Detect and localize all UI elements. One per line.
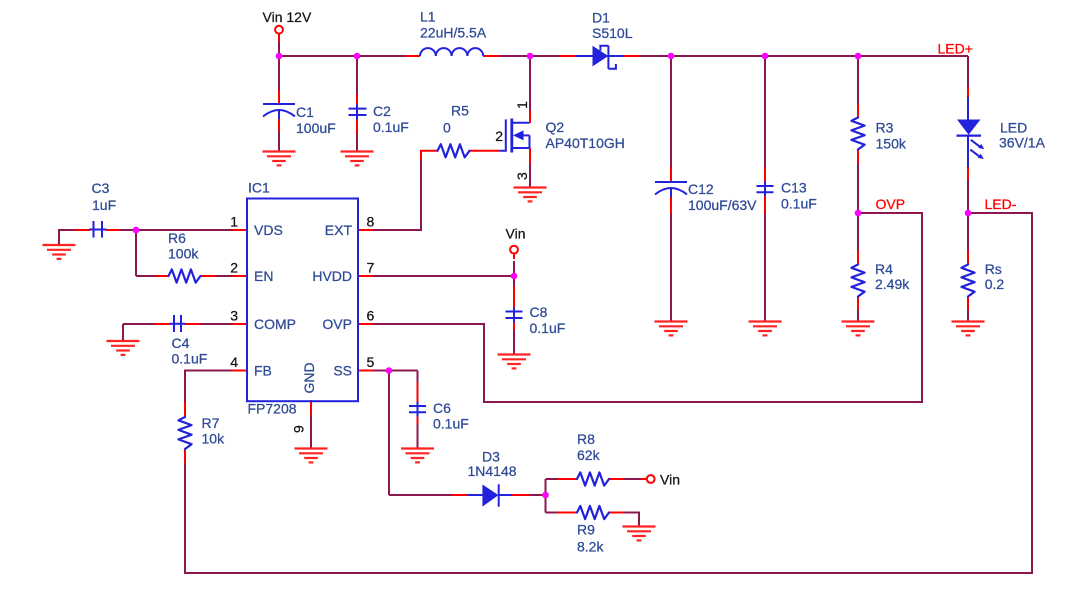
svg-text:S510L: S510L bbox=[592, 25, 633, 41]
svg-text:1: 1 bbox=[514, 101, 530, 109]
ground C4 bbox=[107, 341, 140, 355]
pin stubs Rs bbox=[967, 251, 969, 311]
svg-text:C8: C8 bbox=[530, 304, 548, 320]
wire C3 to VDS bbox=[119, 229, 233, 231]
resistor R3 bbox=[851, 118, 864, 150]
wire OVP net bbox=[373, 213, 922, 402]
ground C8 bbox=[498, 355, 531, 369]
pin stubs R5 and Q2 gate bbox=[421, 151, 500, 160]
svg-text:Rs: Rs bbox=[985, 261, 1002, 277]
svg-text:EN: EN bbox=[254, 268, 273, 284]
wire R3 column bbox=[857, 56, 859, 213]
svg-text:100k: 100k bbox=[168, 246, 199, 262]
pin stubs IC1 right bbox=[358, 230, 373, 371]
svg-text:C4: C4 bbox=[172, 335, 190, 351]
svg-text:R7: R7 bbox=[202, 415, 220, 431]
pin stubs C8 bbox=[513, 286, 515, 330]
svg-text:IC1: IC1 bbox=[248, 180, 270, 196]
wire Q2 drain bbox=[529, 56, 531, 111]
wire C1 column bbox=[278, 56, 280, 152]
ground C13 bbox=[749, 322, 782, 336]
capacitor C4 bbox=[170, 315, 185, 332]
wire EN branch via R6 bbox=[136, 230, 233, 276]
resistor R5 bbox=[438, 144, 470, 157]
wire HVDD to Vin node bbox=[373, 275, 514, 277]
svg-text:22uH/5.5A: 22uH/5.5A bbox=[420, 25, 487, 41]
svg-text:0: 0 bbox=[443, 120, 451, 136]
svg-text:0.1uF: 0.1uF bbox=[530, 320, 566, 336]
node LED- junction bbox=[965, 210, 972, 217]
ground IC1 pin 9 bbox=[295, 449, 328, 463]
pin stubs C1 bbox=[278, 90, 280, 131]
svg-text:L1: L1 bbox=[420, 9, 436, 25]
svg-text:OVP: OVP bbox=[322, 316, 352, 332]
wire R8 row bbox=[546, 478, 641, 480]
node junction VDS/EN bbox=[133, 227, 140, 234]
node junction C13 bbox=[762, 53, 769, 60]
svg-text:Vin: Vin bbox=[660, 472, 680, 488]
svg-text:Q2: Q2 bbox=[546, 119, 565, 135]
pin stubs C4 bbox=[155, 323, 201, 325]
svg-text:R5: R5 bbox=[451, 103, 469, 119]
diode D1 S510L (schottky) bbox=[576, 46, 623, 69]
pin stub Vin terminal 2 bbox=[513, 254, 515, 260]
pin stubs R9 bbox=[558, 512, 624, 514]
svg-text:LED-: LED- bbox=[985, 196, 1017, 212]
capacitor C12 (polarized) bbox=[655, 182, 687, 197]
transistor Q2 AP40T10GH (N-MOSFET) bbox=[500, 119, 530, 153]
resistor R4 bbox=[851, 265, 864, 297]
svg-text:100uF: 100uF bbox=[296, 120, 336, 136]
svg-text:1: 1 bbox=[230, 214, 238, 230]
pin stubs C3 bbox=[75, 229, 120, 231]
pin stubs D3 bbox=[452, 494, 530, 496]
pin stubs R4 bbox=[857, 251, 859, 311]
wire Rs column bbox=[967, 213, 969, 322]
capacitor C2 bbox=[349, 104, 367, 119]
svg-text:4: 4 bbox=[230, 354, 238, 370]
svg-text:8.2k: 8.2k bbox=[577, 539, 604, 555]
svg-text:9: 9 bbox=[291, 425, 307, 433]
svg-text:OVP: OVP bbox=[876, 196, 906, 212]
svg-text:FB: FB bbox=[254, 363, 272, 379]
resistor Rs bbox=[961, 265, 974, 297]
wire Vin terminal stem bbox=[278, 41, 280, 57]
resistor R8 bbox=[577, 472, 609, 485]
node junction C12 bbox=[668, 53, 675, 60]
ground C6 bbox=[401, 449, 434, 463]
pin stubs C6 bbox=[417, 382, 419, 424]
capacitor C8 bbox=[506, 307, 523, 322]
svg-text:3: 3 bbox=[514, 172, 530, 180]
wire D3 cathode junction bbox=[529, 479, 546, 513]
ground C2 bbox=[341, 152, 374, 166]
capacitor C1 (polarized) bbox=[263, 104, 295, 119]
svg-text:2: 2 bbox=[230, 260, 238, 276]
svg-text:C3: C3 bbox=[92, 180, 110, 196]
ground C1 bbox=[263, 152, 296, 166]
ground Q2 source bbox=[514, 188, 547, 202]
pin stub Vin terminal bbox=[278, 34, 280, 43]
svg-text:SS: SS bbox=[333, 363, 352, 379]
svg-text:LED+: LED+ bbox=[938, 41, 973, 57]
svg-text:D1: D1 bbox=[592, 10, 610, 26]
svg-text:5: 5 bbox=[367, 354, 375, 370]
ground R4 bbox=[842, 322, 875, 336]
wire Q2 source to ground bbox=[529, 163, 531, 188]
svg-text:1uF: 1uF bbox=[92, 197, 116, 213]
pin stubs C12 bbox=[670, 167, 672, 214]
svg-text:AP40T10GH: AP40T10GH bbox=[546, 135, 625, 151]
svg-text:0.1uF: 0.1uF bbox=[172, 351, 208, 367]
capacitor C3 bbox=[89, 221, 107, 238]
ground C3 bbox=[43, 245, 76, 259]
node junction C2 bbox=[354, 53, 361, 60]
node junction R3 bbox=[855, 53, 862, 60]
resistor R6 bbox=[169, 269, 201, 282]
wire GND pin 9 to ground bbox=[310, 414, 312, 449]
svg-text:FP7208: FP7208 bbox=[248, 400, 297, 416]
svg-text:1N4148: 1N4148 bbox=[468, 463, 517, 479]
resistor R9 bbox=[577, 506, 609, 519]
pin stubs LED bbox=[967, 87, 969, 180]
wire C8 column bbox=[513, 276, 515, 355]
node junction D3/R8/R9 bbox=[542, 492, 549, 499]
svg-text:2: 2 bbox=[495, 128, 503, 144]
wire LED- net bottom loop bbox=[185, 213, 1032, 573]
diode D3 1N4148 bbox=[468, 484, 512, 506]
ground R9 bbox=[623, 527, 656, 541]
svg-text:7: 7 bbox=[367, 260, 375, 276]
inductor L1 bbox=[420, 48, 483, 56]
node OVP junction bbox=[855, 210, 862, 217]
svg-text:C1: C1 bbox=[296, 104, 314, 120]
wire COMP via C4 to ground bbox=[123, 324, 233, 341]
pin stubs R6 bbox=[156, 275, 215, 277]
wire SS down to D3 bbox=[389, 371, 453, 496]
wire C3 left to ground bbox=[59, 229, 75, 245]
svg-text:0.1uF: 0.1uF bbox=[781, 196, 817, 212]
resistor R7 bbox=[178, 417, 191, 449]
pin stubs Q2 drain source bbox=[529, 110, 531, 164]
svg-text:150k: 150k bbox=[876, 135, 907, 151]
svg-text:2.49k: 2.49k bbox=[875, 276, 910, 292]
svg-text:Vin 12V: Vin 12V bbox=[263, 9, 312, 25]
ground C12 bbox=[655, 322, 688, 336]
svg-text:EXT: EXT bbox=[325, 222, 353, 238]
svg-text:62k: 62k bbox=[577, 447, 601, 463]
svg-text:0.1uF: 0.1uF bbox=[433, 416, 469, 432]
svg-text:R6: R6 bbox=[168, 230, 186, 246]
svg-text:COMP: COMP bbox=[254, 316, 296, 332]
wire R9 row to ground bbox=[546, 513, 640, 528]
wire C13 column bbox=[764, 56, 766, 322]
wire C12 column bbox=[670, 56, 672, 322]
terminal Vin (HVDD) bbox=[510, 246, 518, 254]
capacitor C13 bbox=[757, 182, 774, 197]
svg-text:C13: C13 bbox=[781, 180, 807, 196]
op-amp / IC U1 FP7208 body bbox=[247, 199, 358, 402]
wire top rail Vin net bbox=[279, 55, 968, 57]
wire SS to C6 bbox=[373, 371, 418, 450]
wire R4 column bbox=[857, 213, 859, 322]
node junction Q2 drain bbox=[527, 53, 534, 60]
LED D2 36V/1A bbox=[957, 97, 985, 167]
svg-text:HVDD: HVDD bbox=[312, 268, 352, 284]
pin stubs R7 bbox=[184, 402, 186, 463]
wire LED column bbox=[967, 56, 969, 213]
wire C2 column bbox=[356, 56, 358, 152]
pin stubs R8 bbox=[558, 478, 647, 480]
svg-text:R4: R4 bbox=[875, 261, 893, 277]
svg-text:VDS: VDS bbox=[254, 222, 283, 238]
svg-text:Vin: Vin bbox=[506, 226, 526, 242]
svg-text:C2: C2 bbox=[373, 103, 391, 119]
node junction SS bbox=[386, 367, 393, 374]
svg-text:R9: R9 bbox=[577, 522, 595, 538]
svg-text:C12: C12 bbox=[688, 181, 714, 197]
svg-text:0.1uF: 0.1uF bbox=[373, 119, 409, 135]
svg-text:R8: R8 bbox=[577, 431, 595, 447]
svg-text:3: 3 bbox=[230, 308, 238, 324]
pin stubs C13 bbox=[764, 167, 766, 214]
svg-text:6: 6 bbox=[367, 308, 375, 324]
svg-text:36V/1A: 36V/1A bbox=[999, 135, 1046, 151]
svg-text:0.2: 0.2 bbox=[985, 276, 1005, 292]
node Vin junction C1 bbox=[276, 53, 283, 60]
svg-text:R3: R3 bbox=[876, 120, 894, 136]
wire EXT to R5 bbox=[373, 158, 421, 230]
node junction HVDD/C8 bbox=[511, 273, 518, 280]
pin stubs R3 bbox=[857, 104, 859, 163]
capacitor C6 bbox=[409, 402, 426, 417]
pin stubs C2 bbox=[356, 94, 358, 134]
svg-text:8: 8 bbox=[367, 214, 375, 230]
wire FB to R7 bbox=[185, 371, 233, 404]
terminal Vin (R8) bbox=[647, 475, 655, 483]
pin stub IC1 pin 9 bbox=[310, 400, 312, 415]
svg-text:GND: GND bbox=[301, 362, 317, 393]
svg-text:C6: C6 bbox=[433, 400, 451, 416]
terminal Vin 12V bbox=[275, 26, 283, 34]
wire Vin terminal stem 2 bbox=[513, 261, 515, 277]
pin stubs D1 bbox=[560, 55, 639, 57]
pin stubs IC1 left bbox=[233, 230, 248, 371]
pin stubs L1 bbox=[405, 55, 500, 57]
ground Rs bbox=[952, 322, 985, 336]
svg-text:100uF/63V: 100uF/63V bbox=[688, 197, 757, 213]
svg-text:LED: LED bbox=[1000, 119, 1027, 135]
svg-text:10k: 10k bbox=[202, 431, 226, 447]
